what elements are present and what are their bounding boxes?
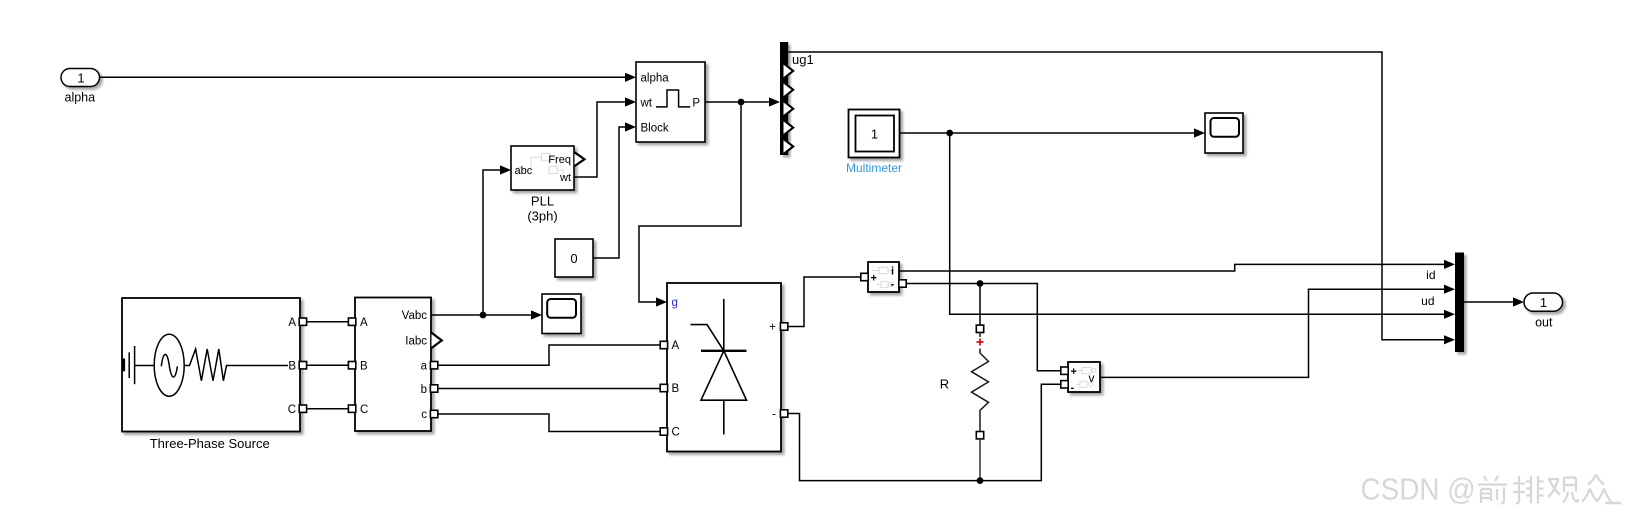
- svg-text:abc: abc: [515, 165, 533, 177]
- svg-text:CSDN @: CSDN @: [1361, 473, 1476, 507]
- svg-text:C: C: [672, 427, 680, 439]
- svg-text:PLL: PLL: [531, 194, 554, 209]
- wire i block minus to v block plus: [906, 284, 1061, 371]
- wire mux output to outport: [1464, 301, 1514, 303]
- resistor R bottom lead: [979, 439, 981, 481]
- demux unconnected chevron 3: [784, 82, 794, 97]
- pulse icon: [656, 90, 690, 107]
- watermark hanzi guan: [1548, 478, 1578, 503]
- svg-text:P: P: [692, 97, 700, 109]
- svg-text:-: -: [772, 409, 776, 421]
- wire demux output to right mux input 4: [788, 52, 1445, 340]
- thyristor port square plus: [780, 323, 787, 330]
- svg-text:v: v: [1089, 371, 1095, 385]
- wire VI b to thyristor B: [438, 388, 660, 390]
- VI port square B: [348, 362, 355, 369]
- i block labels: [871, 266, 895, 291]
- svg-text:id: id: [1426, 268, 1435, 282]
- scope Scope (top right): [1205, 113, 1243, 153]
- svg-text:Multimeter: Multimeter: [846, 161, 902, 175]
- junction on bottom rail: [977, 477, 984, 484]
- svg-text:B: B: [360, 360, 368, 372]
- wire VI a to thyristor A: [438, 345, 660, 365]
- svg-text:1: 1: [871, 126, 878, 141]
- v block port square minus: [1061, 381, 1068, 388]
- v block port square plus: [1061, 367, 1068, 374]
- three-phase VI measurement block: [355, 298, 431, 432]
- resistor R port square top: [976, 325, 983, 332]
- svg-text:C: C: [360, 404, 368, 416]
- source AC ellipse: [154, 334, 184, 396]
- wire VI c to thyristor C: [438, 414, 660, 432]
- source battery plates: [124, 346, 155, 384]
- svg-text:b: b: [421, 384, 427, 396]
- v block labels: [1071, 366, 1095, 394]
- watermark hanzi zhong: [1582, 475, 1611, 502]
- outport out: [1524, 293, 1563, 311]
- VI port square A: [348, 318, 355, 325]
- svg-text:A: A: [672, 340, 680, 352]
- PLL port labels: [515, 154, 572, 184]
- v block ghost icon: [1077, 368, 1096, 388]
- wire bottom rail to v block minus: [980, 384, 1061, 480]
- svg-text:+: +: [769, 322, 776, 334]
- svg-text:-: -: [1071, 382, 1075, 394]
- svg-text:Iabc: Iabc: [405, 336, 427, 348]
- VI port square b: [430, 385, 437, 392]
- svg-text:0: 0: [570, 251, 577, 266]
- svg-text:Vabc: Vabc: [402, 310, 428, 322]
- svg-text:(3ph): (3ph): [527, 209, 557, 224]
- svg-text:-: -: [891, 279, 895, 291]
- svg-text:1: 1: [1540, 295, 1547, 310]
- wire P junction to thyristor g: [639, 102, 741, 302]
- svg-text:a: a: [421, 360, 428, 372]
- svg-text:ug1: ug1: [792, 52, 814, 67]
- multimeter block: [849, 110, 900, 158]
- svg-text:alpha: alpha: [641, 72, 670, 84]
- wire multimeter to scope with junction: [900, 132, 1194, 134]
- VI port square c: [430, 410, 437, 417]
- VI port square C: [348, 405, 355, 412]
- three-phase source block: [122, 298, 300, 432]
- watermark hanzi qian: [1478, 476, 1507, 504]
- block pulse generator: [636, 62, 705, 142]
- inport alpha: [61, 69, 100, 87]
- demux unconnected chevron 4: [784, 101, 794, 116]
- thyristor port square C: [660, 428, 667, 435]
- wire source C to VI C: [307, 408, 349, 410]
- wire P output to demux ug1: [705, 101, 770, 103]
- source sine wave: [161, 354, 177, 377]
- wire thyristor minus to bottom rail: [788, 414, 980, 481]
- demux ug1 bar: [780, 42, 788, 155]
- wire R branch top: [979, 284, 981, 326]
- i block port square left: [861, 273, 868, 280]
- wire Vabc to scope1 with branch to PLL abc: [431, 314, 532, 316]
- voltage measurement block v: [1068, 362, 1100, 392]
- svg-text:1: 1: [77, 70, 84, 85]
- current measurement block i: [868, 262, 899, 292]
- junction on Vabc wire: [480, 312, 487, 319]
- i block port square right: [899, 280, 906, 287]
- svg-text:Block: Block: [641, 122, 669, 134]
- i block ghost icon: [872, 267, 893, 287]
- scope Scope1 (Vabc): [542, 294, 581, 334]
- PLL (3ph) block: [511, 146, 574, 190]
- svg-text:R: R: [940, 377, 949, 392]
- svg-text:ud: ud: [1421, 294, 1434, 308]
- source port square C: [299, 405, 306, 412]
- watermark hanzi pai: [1513, 476, 1544, 504]
- svg-text:+: +: [871, 272, 877, 284]
- svg-text:B: B: [672, 383, 680, 395]
- resistor R port square bottom: [976, 432, 983, 439]
- thyristor port square minus: [780, 410, 787, 417]
- PLL internal ghost icon: [517, 154, 568, 177]
- wire multimeter junction to mux input 3: [950, 133, 1445, 314]
- wire thyristor plus to i block: [788, 277, 861, 327]
- thyristor port square B: [660, 384, 667, 391]
- thyristor bridge block: [667, 283, 781, 452]
- svg-text:c: c: [421, 409, 427, 421]
- wire alpha to pulse generator: [100, 73, 637, 82]
- resistor R red plus: [976, 338, 983, 345]
- junction on P wire: [738, 99, 745, 106]
- svg-text:i: i: [891, 266, 894, 278]
- svg-text:alpha: alpha: [65, 91, 96, 105]
- source port square A: [299, 318, 306, 325]
- wire branch up to PLL abc: [483, 170, 501, 315]
- wire constant 0 to Block input: [593, 127, 626, 258]
- source resistor zigzag: [184, 349, 288, 381]
- thyristor port square A: [660, 341, 667, 348]
- wire v output to mux input 2: [1100, 289, 1445, 377]
- svg-text:B: B: [288, 360, 296, 372]
- VI port square a: [430, 362, 437, 369]
- svg-text:Three-Phase Source: Three-Phase Source: [150, 436, 270, 451]
- demux unconnected chevron 5: [784, 120, 794, 135]
- constant block 0: [555, 239, 593, 277]
- junction on i minus wire: [977, 280, 984, 287]
- svg-text:+: +: [1071, 366, 1077, 378]
- svg-text:C: C: [288, 404, 296, 416]
- VI unconnected chevron Iabc: [432, 333, 442, 348]
- svg-text:Freq: Freq: [548, 154, 571, 166]
- svg-text:wt: wt: [640, 97, 653, 109]
- resistor R zigzag: [979, 333, 981, 338]
- svg-text:wt: wt: [559, 172, 571, 184]
- unconnected output chevron Freq: [575, 152, 585, 166]
- svg-text:A: A: [288, 317, 296, 329]
- source port square B: [299, 362, 306, 369]
- wire source A to VI A: [307, 321, 349, 323]
- arrow into PLL abc: [500, 165, 511, 174]
- svg-text:g: g: [672, 297, 678, 309]
- svg-text:out: out: [1535, 315, 1553, 329]
- demux unconnected chevron 6: [784, 139, 794, 154]
- junction on multimeter wire: [946, 130, 953, 137]
- demux unconnected chevron 2: [784, 63, 794, 78]
- wire i output to mux input 1: [899, 264, 1445, 271]
- mux out bar: [1455, 253, 1464, 353]
- svg-text:A: A: [360, 317, 368, 329]
- wire PLL wt to pulse wt: [574, 102, 626, 177]
- watermark underscore: [1605, 502, 1621, 505]
- arrow into thyristor g: [656, 297, 667, 306]
- wire source B to VI B: [307, 364, 349, 366]
- thyristor symbol: [691, 299, 747, 435]
